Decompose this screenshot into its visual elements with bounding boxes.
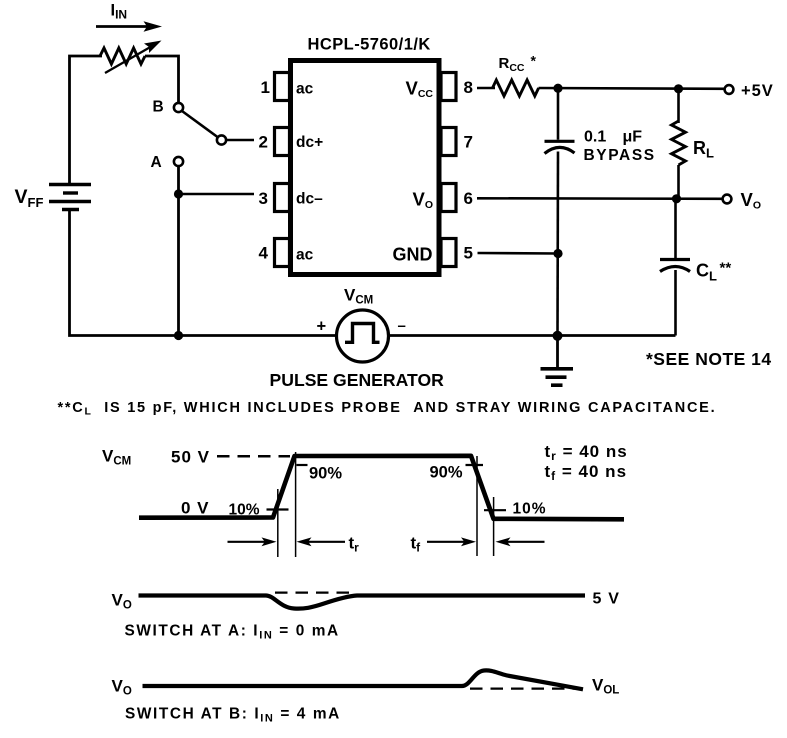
wire battery to bottom rail	[70, 210, 338, 336]
svg-text:0.1: 0.1	[584, 129, 606, 146]
svg-text:GND: GND	[393, 245, 433, 265]
svg-text:2: 2	[259, 133, 268, 152]
waveform A trace with dip	[139, 596, 586, 609]
svg-text:SWITCH AT A: IIN = 0 mA: SWITCH AT A: IIN = 0 mA	[125, 623, 340, 642]
wire A down to bottom rail	[177, 166, 180, 335]
capacitor CL	[660, 260, 731, 284]
arrow tf right-pointing	[427, 537, 476, 546]
node B terminal	[153, 99, 184, 116]
wire CL top	[674, 199, 677, 258]
waveform B dashed level	[470, 687, 581, 689]
pin 1 box	[275, 73, 290, 101]
svg-text:ac: ac	[296, 247, 314, 264]
wire CL bottom to bottom rail	[674, 270, 677, 336]
waveform A dashed level	[275, 591, 352, 593]
junction dot ground on bottom rail	[553, 331, 563, 341]
junction dot bypass top	[553, 84, 562, 93]
wire top-left from battery to resistor	[70, 56, 103, 184]
wire resistor to switch B	[145, 56, 179, 103]
svg-text:50 V: 50 V	[171, 448, 210, 467]
guide line rise 90%	[295, 452, 297, 557]
switch SW1 lever	[182, 111, 218, 137]
svg-text:–: –	[398, 318, 406, 335]
pin 7 box	[441, 128, 456, 156]
pin 3 box	[275, 184, 290, 212]
resistor RCC	[493, 53, 539, 97]
wire A junction to pin 3	[179, 193, 255, 196]
terminal VO	[723, 189, 761, 212]
svg-text:**CL IS 15 pF, WHICH INCLUDES: **CL IS 15 pF, WHICH INCLUDES PROBE AND …	[58, 400, 717, 418]
arrow tr left-pointing	[297, 537, 346, 546]
svg-text:HCPL-5760/1/K: HCPL-5760/1/K	[308, 36, 431, 54]
switch pole terminal	[217, 135, 226, 144]
svg-text:6: 6	[464, 189, 473, 208]
wire pin 6 to VO terminal	[477, 197, 727, 200]
svg-text:8: 8	[464, 78, 473, 97]
tick 10% left	[267, 508, 289, 510]
pulse generator source	[337, 310, 389, 362]
resistor RL	[672, 89, 715, 199]
junction dot RL top	[674, 84, 683, 93]
wire bypass bottom to ground junction	[556, 152, 559, 336]
svg-text:90%: 90%	[309, 465, 342, 483]
battery VFF	[15, 185, 92, 211]
svg-text:7: 7	[464, 133, 473, 152]
waveform B trace with bump	[143, 670, 584, 689]
node A terminal	[151, 154, 184, 171]
svg-text:90%: 90%	[430, 464, 463, 482]
svg-text:4: 4	[259, 244, 269, 263]
svg-text:tf = 40 ns: tf = 40 ns	[545, 462, 628, 483]
wire switch pole to pin 2	[227, 139, 255, 142]
junction dot node A to pin3	[174, 189, 183, 198]
svg-text:5: 5	[464, 244, 473, 263]
tick 90% right	[466, 464, 484, 466]
svg-text:dc–: dc–	[296, 191, 323, 208]
pin 8 box	[441, 73, 456, 101]
tick 10% right	[484, 509, 506, 511]
svg-text:1: 1	[261, 78, 270, 97]
pin 5 box	[441, 239, 456, 267]
svg-text:A: A	[151, 154, 162, 171]
pin 6 box	[441, 184, 456, 212]
current arrow IIN	[96, 21, 162, 31]
svg-text:BYPASS: BYPASS	[584, 147, 656, 164]
pin 2 box	[275, 128, 290, 156]
svg-text:**: **	[720, 260, 732, 277]
guide line fall 10%	[493, 497, 495, 556]
wire RCC to +5V rail	[539, 87, 730, 90]
junction dot A on bottom rail	[174, 331, 183, 340]
svg-text:5 V: 5 V	[593, 591, 621, 608]
IC U1 HCPL-5760/1/K body	[291, 36, 440, 275]
ground symbol	[541, 336, 574, 386]
svg-text:PULSE GENERATOR: PULSE GENERATOR	[270, 370, 445, 390]
pin 4 box	[275, 239, 290, 267]
junction dot pin5 to bypass	[553, 249, 562, 258]
svg-text:μF: μF	[623, 129, 643, 146]
tick 90% left	[297, 464, 308, 466]
svg-text:+: +	[317, 318, 327, 336]
capacitor C bypass wire top	[557, 88, 560, 140]
VCM waveform trace	[139, 456, 624, 520]
dashed 50V level line	[217, 455, 290, 458]
wire pin 8 to RCC	[477, 87, 495, 90]
junction dot RL bottom / CL top	[672, 194, 681, 203]
svg-text:SWITCH AT B: IIN = 4 mA: SWITCH AT B: IIN = 4 mA	[125, 706, 341, 725]
wire generator to CL bottom	[389, 334, 676, 337]
svg-text:3: 3	[259, 189, 268, 208]
arrow into fall right-pointing-left	[496, 537, 545, 546]
svg-text:ac: ac	[296, 81, 314, 98]
guide line rise 10%	[277, 489, 279, 557]
guide line fall 90%	[476, 456, 478, 556]
svg-text:10%: 10%	[513, 501, 547, 518]
svg-text:dc+: dc+	[296, 134, 323, 151]
arrow into rise left	[228, 537, 277, 546]
capacitor C bypass	[545, 141, 575, 153]
svg-text:+5V: +5V	[741, 82, 774, 100]
resistor R (variable, series with VFF)	[100, 41, 162, 74]
svg-text:*: *	[531, 53, 537, 69]
current label IIN	[111, 2, 128, 22]
svg-text:tr = 40 ns: tr = 40 ns	[545, 442, 628, 463]
svg-text:0 V: 0 V	[181, 499, 210, 518]
svg-text:B: B	[153, 99, 164, 116]
svg-text:*SEE NOTE 14: *SEE NOTE 14	[646, 349, 772, 369]
terminal +5V	[725, 82, 774, 100]
wire pin 5 to bypass line	[478, 252, 559, 255]
